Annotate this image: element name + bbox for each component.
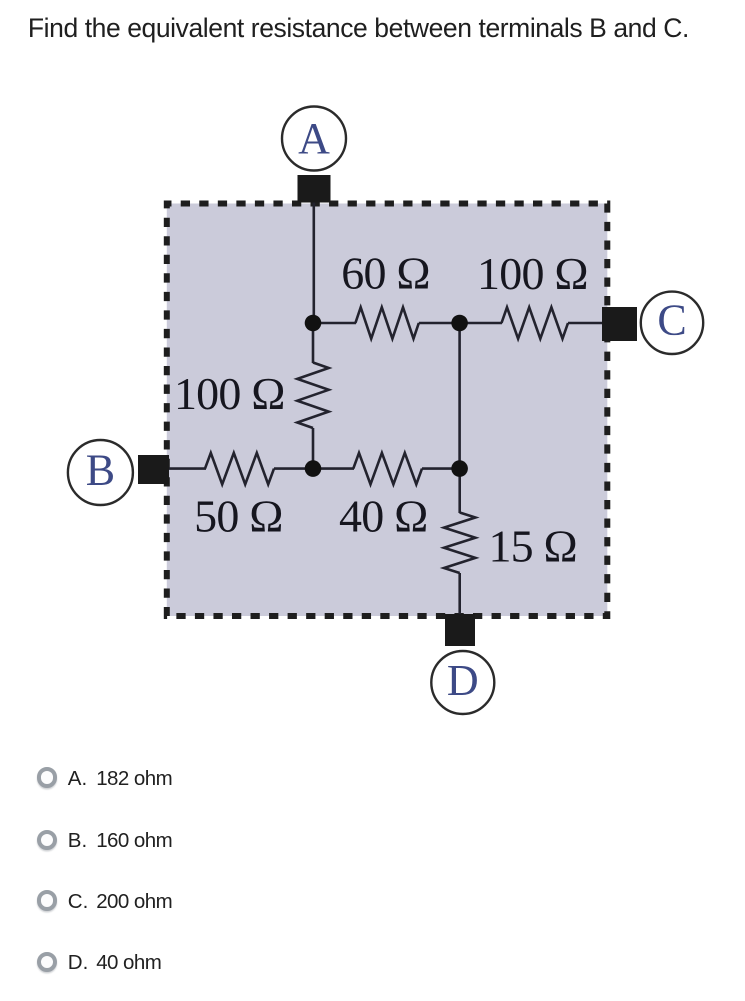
terminal circle C bbox=[641, 292, 703, 354]
option B bbox=[0, 829, 745, 851]
terminal pad B bbox=[138, 455, 169, 484]
terminal pad A bbox=[298, 175, 331, 203]
svg-text:B: B bbox=[86, 446, 115, 495]
wire node1 to R60 bbox=[313, 322, 356, 325]
svg-text:60 Ω: 60 Ω bbox=[341, 248, 430, 299]
terminal circle B bbox=[68, 440, 133, 505]
option A bbox=[0, 767, 745, 789]
wire node2 to R100r bbox=[460, 322, 502, 325]
terminal circle D bbox=[431, 651, 494, 714]
terminal circle A bbox=[282, 107, 346, 171]
resistor R100v 100ohm vertical bbox=[297, 363, 328, 429]
wire R60 to node2 bbox=[419, 322, 460, 325]
svg-text:100 Ω: 100 Ω bbox=[477, 248, 588, 299]
svg-text:A: A bbox=[298, 114, 330, 163]
node junction 2 bbox=[451, 315, 468, 332]
wire node1 to R100v bbox=[312, 323, 315, 363]
resistor R100r 100ohm right bbox=[502, 307, 569, 338]
dashed network box bbox=[167, 204, 608, 617]
wire node3 to R40 bbox=[313, 467, 354, 470]
wire R40 to node4 bbox=[422, 467, 460, 470]
svg-text:50 Ω: 50 Ω bbox=[194, 491, 283, 542]
option D bbox=[0, 951, 745, 973]
resistor R50 50ohm bbox=[205, 453, 274, 484]
wire terminal B to R50 bbox=[166, 467, 206, 470]
node junction 3 bbox=[305, 460, 322, 477]
svg-text:40 Ω: 40 Ω bbox=[339, 491, 428, 542]
wire R100r to terminal C bbox=[568, 322, 606, 325]
svg-text:D: D bbox=[447, 656, 479, 705]
option C bbox=[0, 890, 745, 912]
svg-text:C: C bbox=[657, 296, 686, 345]
resistor R40 40ohm bbox=[353, 453, 422, 484]
wire R15 to terminal D bbox=[458, 573, 461, 625]
svg-text:100 Ω: 100 Ω bbox=[174, 368, 285, 419]
node junction 4 bbox=[451, 460, 468, 477]
wire R100v to node3 bbox=[312, 428, 315, 469]
wire node4 to R15 bbox=[458, 469, 461, 513]
svg-text:15 Ω: 15 Ω bbox=[488, 521, 577, 572]
wire R50 to node3 bbox=[274, 467, 314, 470]
wire A to node1 bbox=[312, 190, 315, 323]
terminal pad C bbox=[602, 307, 637, 341]
question title bbox=[28, 13, 689, 44]
wire node2 to node4 bbox=[458, 323, 461, 469]
resistor R15 15ohm bbox=[444, 513, 475, 574]
node junction 1 bbox=[305, 315, 322, 332]
resistor R60 60ohm bbox=[355, 307, 418, 338]
terminal pad D bbox=[445, 614, 475, 646]
